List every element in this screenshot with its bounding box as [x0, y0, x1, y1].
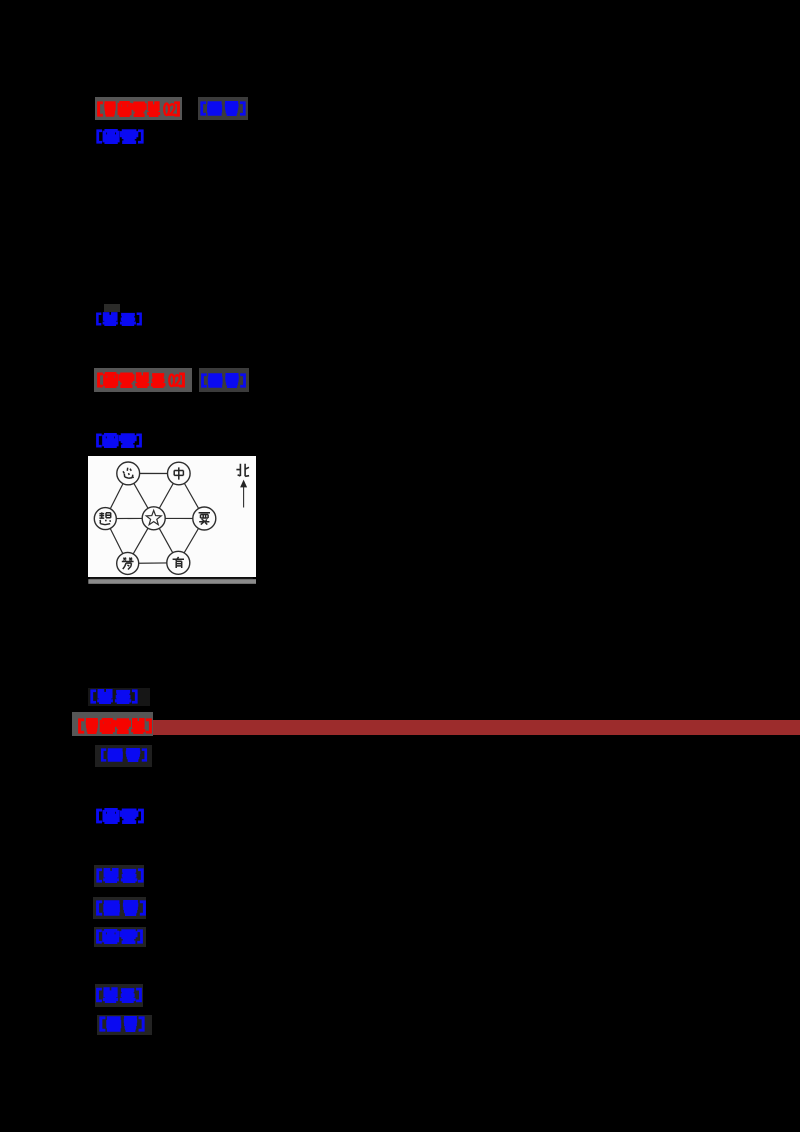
- circle star: [142, 507, 165, 530]
- blue marker jieda 3: [96, 808, 144, 824]
- blue marker dianping 3: [96, 868, 144, 883]
- blue marker fenxi 3: [100, 748, 148, 762]
- blue marker fenxi 5: [99, 1016, 145, 1032]
- char zhong: [174, 467, 183, 479]
- circle zhong: [168, 462, 191, 485]
- char xiang: [99, 512, 110, 524]
- blue marker dianping 1: [96, 312, 142, 326]
- char xin: [123, 468, 133, 479]
- red header badge 2: [97, 372, 185, 388]
- red bar title text: [78, 718, 152, 734]
- faint patch: [97, 1015, 152, 1035]
- faint patch: [94, 865, 144, 887]
- red header badge 1: [97, 101, 180, 117]
- gray highlight header 2: [94, 368, 192, 392]
- blue marker jieda 2: [96, 433, 142, 448]
- circle xin: [117, 462, 140, 485]
- char meng: [122, 558, 134, 570]
- blue marker fenxi 1: [200, 101, 246, 116]
- blue marker fenxi 4: [96, 900, 146, 916]
- star: [146, 510, 161, 524]
- blue marker dianping 2: [90, 689, 138, 704]
- circle yao: [193, 507, 216, 530]
- circle you: [167, 551, 190, 574]
- faint patch: [88, 688, 150, 706]
- picture: hexagon dice-net diagram: [88, 456, 256, 585]
- char yao: [199, 513, 210, 525]
- circle meng: [117, 552, 139, 574]
- faint patch: [93, 897, 146, 919]
- dark red bar: [153, 720, 800, 734]
- dark highlight behind marker 2: [199, 368, 250, 392]
- char north: [236, 464, 249, 477]
- dark highlight behind marker 1: [198, 97, 249, 121]
- blue marker jieda 1: [96, 129, 144, 144]
- gray highlight header 1: [95, 97, 182, 121]
- faint patch: [94, 927, 146, 948]
- faint patch: [95, 984, 143, 1008]
- circle xiang: [94, 508, 116, 530]
- blue marker jieda 4: [96, 929, 143, 944]
- blue marker fenxi 2: [201, 373, 246, 388]
- faint patch: [95, 745, 152, 767]
- small gray char highlight: [104, 304, 121, 312]
- connection lines: [105, 473, 204, 563]
- char you: [173, 557, 184, 568]
- blue marker dianping 4: [96, 987, 142, 1003]
- gray highlight on bar title: [72, 712, 153, 736]
- north arrow: [243, 487, 245, 508]
